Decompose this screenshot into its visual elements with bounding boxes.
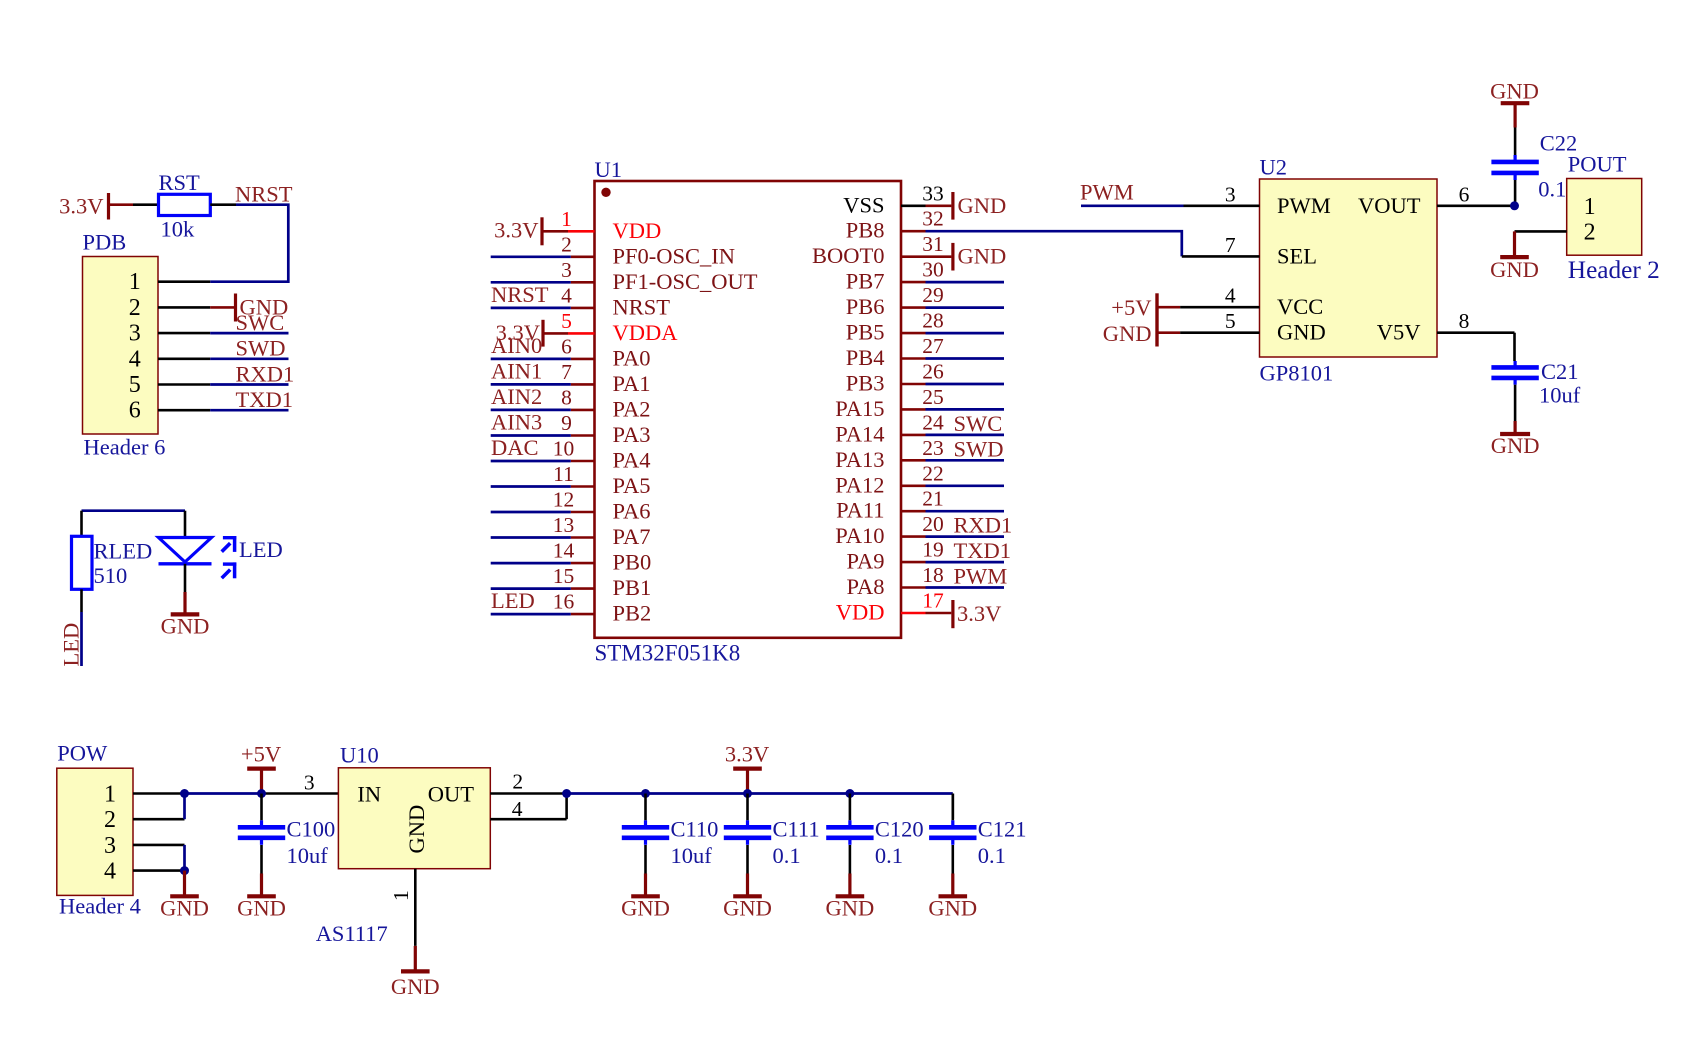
svg-text:10uf: 10uf — [671, 843, 713, 868]
pin 5 of PDB — [158, 383, 210, 386]
pin 1 of PDB — [158, 280, 210, 283]
wire net SWD — [210, 336, 288, 361]
svg-text:PB2: PB2 — [613, 601, 652, 626]
wire (U1 pin 10) — [491, 460, 571, 463]
resistor RST 10k — [159, 170, 211, 242]
wire NRST to PDB pin 1 — [210, 205, 288, 282]
svg-text:PWM: PWM — [1080, 179, 1134, 204]
svg-text:31: 31 — [922, 232, 944, 256]
pin 24 of U1 (PA14) — [835, 410, 944, 446]
svg-text:3.3V: 3.3V — [957, 601, 1001, 626]
svg-text:10uf: 10uf — [287, 843, 329, 868]
svg-text:PB4: PB4 — [846, 345, 885, 370]
pin 4 of PDB — [158, 357, 210, 360]
ic U1 STM32F051K8 — [595, 157, 902, 666]
svg-text:SWC: SWC — [954, 411, 1003, 436]
ground (C110) — [621, 874, 670, 921]
svg-text:0.1: 0.1 — [875, 843, 903, 868]
svg-text:AIN3: AIN3 — [491, 410, 542, 435]
svg-text:RST: RST — [159, 170, 201, 195]
svg-text:10uf: 10uf — [1539, 383, 1581, 408]
ground (POW pins 3-4) — [160, 871, 209, 921]
wire — [644, 845, 647, 874]
svg-text:1: 1 — [1584, 194, 1596, 220]
pin 27 of U1 (PB4) — [846, 334, 944, 370]
svg-text:Header 2: Header 2 — [1568, 256, 1660, 284]
pin 5 of U1 (VDDA) — [561, 309, 678, 345]
svg-text:SWD: SWD — [236, 336, 286, 361]
svg-text:1: 1 — [129, 269, 141, 295]
svg-text:PA0: PA0 — [613, 345, 651, 370]
svg-text:SWD: SWD — [954, 436, 1004, 461]
svg-text:PB6: PB6 — [846, 294, 885, 319]
svg-text:GND: GND — [958, 193, 1007, 218]
ground (C21) — [1491, 421, 1540, 458]
wire (U1 pin 8) — [491, 409, 571, 412]
wire net RXD1 — [210, 361, 294, 386]
pin 3 of U1 (PF1-OSC_OUT) — [561, 258, 758, 294]
svg-text:GP8101: GP8101 — [1260, 361, 1334, 386]
ground (POUT pin 2) — [1490, 231, 1539, 282]
junction (VOUT node) — [1510, 201, 1519, 210]
svg-text:10: 10 — [553, 437, 575, 461]
svg-text:0.1: 0.1 — [1538, 177, 1566, 202]
svg-text:4: 4 — [512, 797, 523, 821]
svg-text:POUT: POUT — [1568, 152, 1627, 177]
pin 4 of POW — [133, 869, 185, 872]
svg-text:7: 7 — [1225, 233, 1236, 257]
svg-text:Header 4: Header 4 — [59, 894, 141, 919]
svg-text:IN: IN — [357, 781, 381, 806]
wire — [82, 511, 186, 537]
svg-text:GND: GND — [621, 895, 670, 920]
svg-text:OUT: OUT — [428, 781, 474, 806]
pin 1 of POW — [133, 792, 185, 795]
pin 4 of U2 (VCC) — [1180, 284, 1259, 308]
junction — [641, 789, 650, 798]
svg-text:GND: GND — [237, 895, 286, 920]
pin 17 of U1 (VDD) — [836, 589, 944, 625]
pin 7 of U2 (SEL) — [1182, 233, 1260, 257]
wire PB8 to U2 SEL — [926, 231, 1182, 256]
ic U10 AS1117 — [316, 743, 491, 947]
svg-text:2: 2 — [129, 295, 141, 321]
svg-text:3: 3 — [561, 258, 572, 282]
pin 23 of U1 (PA13) — [835, 436, 943, 472]
pin 30 of U1 (PB7) — [846, 258, 944, 294]
wire (U1 pin 30) — [926, 281, 1005, 284]
svg-text:VDD: VDD — [836, 600, 885, 625]
wire (U1 pin 4) — [491, 307, 571, 310]
power 3.3V (U1 pin 17) — [926, 600, 1002, 628]
pin 6 of U2 (VOUT) — [1437, 182, 1515, 206]
svg-text:GND: GND — [826, 895, 875, 920]
svg-text:+5V: +5V — [1111, 295, 1151, 320]
header POW (Header 4) — [57, 741, 141, 919]
svg-text:4: 4 — [1225, 284, 1236, 308]
wire (U1 pin 21) — [926, 510, 1005, 513]
svg-text:PB8: PB8 — [846, 218, 885, 243]
pin 6 of U1 (PA0) — [561, 334, 650, 370]
pin 5 of U2 (GND) — [1180, 309, 1259, 333]
svg-text:NRST: NRST — [235, 182, 293, 207]
svg-text:PWM: PWM — [1277, 193, 1331, 218]
ground (U10 pin 1) — [391, 946, 440, 999]
svg-text:POW: POW — [57, 741, 108, 766]
svg-text:3: 3 — [104, 833, 116, 859]
pin 16 of U1 (PB2) — [553, 590, 652, 626]
wire — [133, 203, 159, 206]
svg-text:PA11: PA11 — [836, 498, 884, 523]
wire net SWC — [926, 411, 1005, 436]
svg-text:9: 9 — [561, 411, 572, 435]
power 3.3V (U1 pin 1) — [494, 217, 568, 245]
wire — [746, 845, 749, 874]
pin 3 of POW — [133, 844, 185, 847]
svg-text:U1: U1 — [595, 157, 623, 182]
pin 25 of U1 (PA15) — [835, 385, 943, 421]
svg-text:RXD1: RXD1 — [236, 361, 295, 386]
svg-text:V5V: V5V — [1377, 320, 1421, 345]
svg-text:PA13: PA13 — [835, 447, 884, 472]
svg-text:AIN2: AIN2 — [491, 384, 542, 409]
svg-text:0.1: 0.1 — [773, 843, 801, 868]
svg-text:TXD1: TXD1 — [954, 538, 1012, 563]
svg-text:21: 21 — [922, 487, 944, 511]
wire net RXD1 — [926, 513, 1013, 538]
wire (U1 pin 15) — [491, 587, 571, 590]
ic U2 GP8101 — [1260, 155, 1438, 386]
capacitor C110 10uf — [622, 794, 719, 868]
net label PWM — [1080, 179, 1184, 206]
svg-text:1: 1 — [104, 782, 116, 808]
svg-text:AIN0: AIN0 — [491, 333, 542, 358]
pin 6 of PDB — [158, 409, 210, 412]
svg-text:28: 28 — [922, 309, 944, 333]
ground (C22 top) — [1490, 79, 1539, 128]
pin 32 of U1 (PB8) — [846, 207, 944, 243]
wire — [260, 845, 263, 874]
pin 7 of U1 (PA1) — [561, 360, 650, 396]
wire (U1 pin 12) — [491, 511, 571, 514]
svg-text:510: 510 — [94, 563, 128, 588]
pin 8 of U2 (V5V) — [1437, 309, 1515, 333]
pin 9 of U1 (PA3) — [561, 411, 650, 447]
pin 22 of U1 (PA12) — [835, 461, 943, 497]
svg-text:23: 23 — [922, 436, 944, 460]
wire (U1 pin 3) — [491, 281, 571, 284]
wire — [210, 203, 236, 206]
pin 21 of U1 (PA11) — [836, 487, 944, 523]
pin 14 of U1 (PB0) — [553, 539, 652, 575]
svg-text:8: 8 — [1459, 309, 1470, 333]
svg-text:Header 6: Header 6 — [84, 435, 166, 460]
pin 18 of U1 (PA8) — [847, 563, 944, 599]
svg-text:PA5: PA5 — [613, 473, 651, 498]
junction — [845, 789, 854, 798]
svg-text:STM32F051K8: STM32F051K8 — [595, 641, 741, 666]
diode LED — [159, 536, 283, 578]
power +5V — [241, 741, 281, 793]
header POUT (Header 2) — [1567, 152, 1660, 284]
wire — [184, 511, 187, 538]
svg-text:2: 2 — [561, 232, 572, 256]
ground (U1 pin 31 BOOT0) — [926, 243, 1007, 271]
svg-text:18: 18 — [922, 563, 944, 587]
svg-text:6: 6 — [129, 398, 141, 424]
wire (U1 pin 2) — [491, 255, 571, 258]
svg-text:PA7: PA7 — [613, 524, 651, 549]
svg-text:11: 11 — [553, 462, 574, 486]
svg-text:15: 15 — [553, 564, 575, 588]
svg-text:U2: U2 — [1260, 155, 1288, 180]
pin 29 of U1 (PB6) — [846, 283, 944, 319]
pin 28 of U1 (PB5) — [846, 309, 944, 345]
svg-text:VOUT: VOUT — [1358, 193, 1421, 218]
svg-text:RLED: RLED — [94, 539, 153, 564]
pin 13 of U1 (PA7) — [553, 513, 651, 549]
wire (U1 pin 28) — [926, 332, 1005, 335]
svg-text:PB3: PB3 — [846, 371, 885, 396]
wire 3.3V rail — [567, 792, 953, 795]
wire (U1 pin 26) — [926, 383, 1005, 386]
wire — [951, 845, 954, 874]
svg-text:19: 19 — [922, 538, 944, 562]
svg-text:LED: LED — [239, 537, 283, 562]
svg-text:PA10: PA10 — [835, 523, 884, 548]
svg-text:VDD: VDD — [613, 218, 662, 243]
svg-text:22: 22 — [922, 461, 944, 485]
svg-text:4: 4 — [104, 859, 116, 885]
ground (C121) — [928, 874, 977, 921]
svg-text:6: 6 — [1459, 182, 1470, 206]
pin 11 of U1 (PA5) — [553, 462, 650, 498]
svg-text:17: 17 — [922, 589, 944, 613]
pin 8 of U1 (PA2) — [561, 385, 650, 421]
pin 10 of U1 (PA4) — [553, 437, 651, 473]
svg-text:PDB: PDB — [83, 230, 127, 255]
svg-text:0.1: 0.1 — [978, 843, 1006, 868]
pin 3 of PDB — [158, 332, 210, 335]
svg-text:VCC: VCC — [1277, 294, 1323, 319]
svg-text:3.3V: 3.3V — [494, 218, 538, 243]
junction — [743, 789, 752, 798]
svg-text:C111: C111 — [773, 816, 820, 841]
junction — [257, 789, 266, 798]
svg-text:GND: GND — [1103, 321, 1152, 346]
svg-text:PA15: PA15 — [835, 396, 884, 421]
junction — [180, 789, 189, 798]
pin 2 of POW — [133, 818, 185, 821]
pin 31 of U1 (BOOT0) — [812, 232, 944, 268]
wire (U1 pin 13) — [491, 536, 571, 539]
svg-text:PWM: PWM — [954, 564, 1008, 589]
svg-text:SEL: SEL — [1277, 243, 1317, 268]
pin 3 of U2 (PWM) — [1184, 182, 1260, 206]
svg-text:BOOT0: BOOT0 — [812, 243, 885, 268]
wire (U1 pin 29) — [926, 306, 1005, 309]
svg-text:33: 33 — [922, 181, 944, 205]
wire net SWC — [210, 310, 288, 335]
pin 4 of U10 — [490, 794, 566, 822]
pin 2 of U10 (OUT) — [490, 769, 566, 793]
svg-text:PA8: PA8 — [847, 574, 885, 599]
capacitor C22 0.1 — [1491, 128, 1577, 206]
svg-text:GND: GND — [1490, 79, 1539, 104]
pin 2 of U1 (PF0-OSC_IN) — [561, 232, 735, 268]
wire net SWD — [926, 436, 1005, 461]
svg-text:GND: GND — [723, 895, 772, 920]
wire (U1 pin 22) — [926, 484, 1005, 487]
svg-text:3: 3 — [304, 771, 315, 795]
wire net PWM — [926, 564, 1008, 589]
svg-text:1: 1 — [389, 890, 413, 901]
wire — [184, 564, 187, 592]
svg-text:PA12: PA12 — [835, 472, 884, 497]
svg-text:2: 2 — [1584, 219, 1596, 245]
svg-text:U10: U10 — [340, 743, 379, 768]
ground (C120) — [826, 874, 875, 921]
svg-text:PF1-OSC_OUT: PF1-OSC_OUT — [613, 269, 758, 294]
svg-text:2: 2 — [104, 807, 116, 833]
pin 26 of U1 (PB3) — [846, 360, 944, 396]
capacitor C111 0.1 — [724, 794, 820, 868]
svg-text:12: 12 — [553, 488, 575, 512]
pin 1 of U10 (GND) — [389, 869, 415, 946]
svg-text:TXD1: TXD1 — [236, 387, 294, 412]
svg-text:4: 4 — [129, 346, 141, 372]
svg-text:VSS: VSS — [843, 192, 884, 217]
power 3.3V (regulator output) — [725, 741, 769, 793]
svg-text:PA2: PA2 — [613, 396, 651, 421]
svg-text:PB0: PB0 — [613, 550, 652, 575]
svg-text:RXD1: RXD1 — [954, 513, 1013, 538]
svg-text:NRST: NRST — [491, 282, 549, 307]
pin 20 of U1 (PA10) — [835, 512, 943, 548]
capacitor C100 10uf — [238, 794, 335, 868]
svg-text:DAC: DAC — [491, 435, 539, 460]
svg-text:LED: LED — [59, 623, 84, 667]
svg-text:PA4: PA4 — [613, 448, 651, 473]
svg-text:LED: LED — [491, 588, 535, 613]
header PDB (Header 6) — [83, 230, 166, 460]
wire (U1 pin 9) — [491, 434, 571, 437]
svg-text:PA3: PA3 — [613, 422, 651, 447]
wire (U1 pin 7) — [491, 383, 571, 386]
pin 19 of U1 (PA9) — [847, 538, 944, 574]
svg-text:3.3V: 3.3V — [59, 194, 103, 219]
power 3.3V (U1 pin 5) — [496, 320, 568, 347]
wire (U1 pin 27) — [926, 357, 1005, 360]
wire POW pin2 to pin1 — [183, 794, 186, 820]
pin 2 of POUT wire — [1515, 230, 1567, 233]
svg-text:26: 26 — [922, 360, 944, 384]
svg-text:PF0-OSC_IN: PF0-OSC_IN — [613, 243, 736, 268]
pin 1 of U1 (VDD) — [561, 207, 661, 243]
svg-text:GND: GND — [1277, 320, 1326, 345]
svg-text:AS1117: AS1117 — [316, 921, 388, 946]
svg-text:VDDA: VDDA — [613, 320, 679, 345]
svg-text:5: 5 — [561, 309, 572, 333]
svg-text:30: 30 — [922, 258, 944, 282]
svg-text:27: 27 — [922, 334, 944, 358]
wire net TXD1 — [210, 387, 293, 412]
pin 2 of PDB — [158, 306, 210, 309]
ground — [161, 592, 210, 639]
svg-text:4: 4 — [561, 283, 572, 307]
svg-text:PA14: PA14 — [835, 421, 884, 446]
ground (PDB pin 2) — [210, 294, 288, 322]
svg-text:25: 25 — [922, 385, 944, 409]
svg-text:16: 16 — [553, 590, 575, 614]
ground (C100) — [237, 874, 286, 921]
svg-text:10k: 10k — [161, 217, 196, 242]
wire (U1 pin 16) — [491, 613, 571, 616]
svg-text:24: 24 — [922, 410, 944, 434]
wire POW pin3 to pin4 — [183, 845, 186, 871]
svg-text:14: 14 — [553, 539, 575, 563]
svg-text:7: 7 — [561, 360, 572, 384]
wire net TXD1 — [926, 538, 1012, 563]
svg-text:GND: GND — [958, 244, 1007, 269]
svg-text:AIN1: AIN1 — [491, 358, 542, 383]
svg-text:C21: C21 — [1541, 359, 1579, 384]
svg-text:1: 1 — [561, 207, 572, 231]
capacitor C120 0.1 — [826, 794, 923, 868]
svg-text:PB5: PB5 — [846, 320, 885, 345]
resistor RLED 510 — [72, 536, 153, 589]
wire (U1 pin 6) — [491, 358, 571, 361]
wire — [262, 792, 339, 795]
svg-text:C121: C121 — [978, 816, 1027, 841]
svg-text:PB7: PB7 — [846, 269, 885, 294]
pin 12 of U1 (PA6) — [553, 488, 651, 524]
power 3.3V (RST pull-up) — [59, 193, 133, 220]
svg-text:3.3V: 3.3V — [725, 741, 769, 766]
wire +5V rail — [185, 792, 262, 795]
junction — [180, 866, 189, 875]
svg-text:8: 8 — [561, 385, 572, 409]
svg-text:GND: GND — [1491, 433, 1540, 458]
wire — [849, 845, 852, 874]
svg-text:GND: GND — [1490, 257, 1539, 282]
svg-text:6: 6 — [561, 334, 572, 358]
svg-text:+5V: +5V — [241, 741, 281, 766]
svg-text:3: 3 — [129, 321, 141, 347]
svg-text:2: 2 — [512, 769, 523, 793]
wire (U1 pin 11) — [491, 485, 571, 488]
wire (U1 pin 14) — [491, 562, 571, 565]
svg-text:C110: C110 — [671, 816, 719, 841]
svg-text:5: 5 — [1225, 309, 1236, 333]
pin 4 of U1 (NRST) — [561, 283, 670, 319]
pin 15 of U1 (PB1) — [553, 564, 652, 600]
svg-text:GND: GND — [161, 614, 210, 639]
capacitor C21 10uf — [1491, 333, 1580, 421]
svg-text:PA6: PA6 — [613, 499, 651, 524]
svg-text:PA9: PA9 — [847, 549, 885, 574]
pin 33 of U1 (VSS) — [843, 181, 944, 217]
svg-text:GND: GND — [160, 895, 209, 920]
svg-text:5: 5 — [129, 372, 141, 398]
wire (U1 pin 25) — [926, 408, 1005, 411]
capacitor C121 0.1 — [929, 794, 1026, 868]
svg-text:SWC: SWC — [236, 310, 285, 335]
svg-text:GND: GND — [404, 805, 429, 854]
svg-text:20: 20 — [922, 512, 944, 536]
svg-text:PA1: PA1 — [613, 371, 651, 396]
svg-text:3: 3 — [1225, 182, 1236, 206]
